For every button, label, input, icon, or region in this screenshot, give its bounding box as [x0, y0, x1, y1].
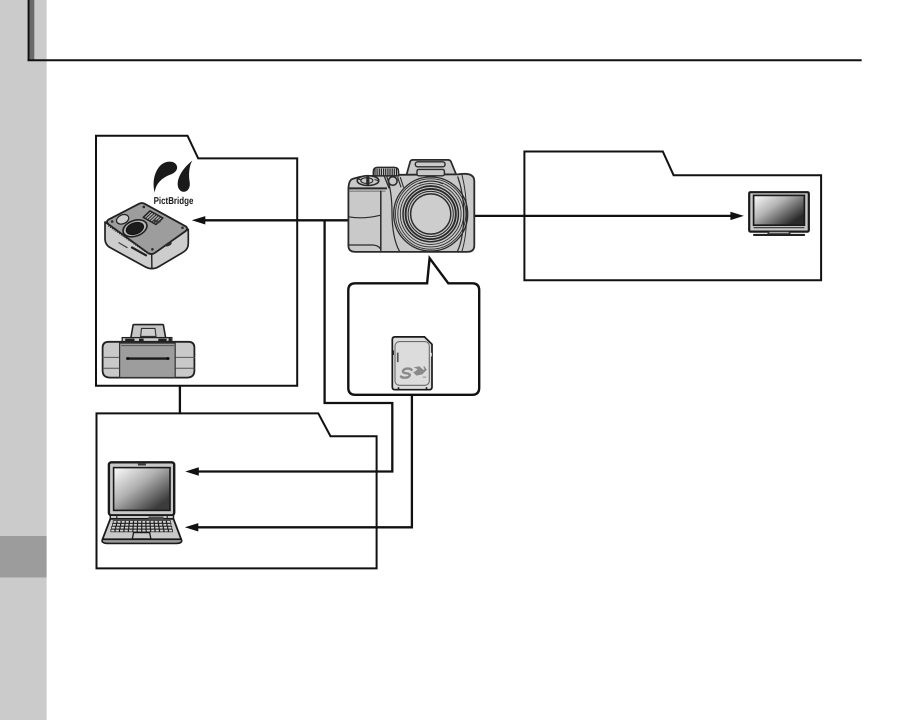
lens shroud right edge [457, 176, 464, 251]
computer group box [97, 413, 377, 568]
wire camera to TV [470, 215, 732, 217]
top plate diagonal [384, 176, 389, 188]
inkjet printer [102, 325, 195, 378]
TV [749, 192, 809, 236]
left page margin strip [0, 0, 47, 720]
wire camera to computer (USB) [198, 220, 392, 471]
wire camera to printer [203, 219, 350, 221]
SD card [392, 337, 433, 390]
mode dial [373, 167, 398, 176]
photo printer [105, 203, 188, 269]
shutter lever [357, 176, 379, 186]
flash hump window [415, 162, 445, 167]
arrowhead at computer (USB) [185, 467, 199, 475]
PictBridge logo mark [154, 161, 193, 193]
TV group box [524, 152, 821, 281]
arrowhead at TV [730, 212, 744, 220]
diagonals right of AF lamp [398, 177, 404, 187]
SD card callout bubble [348, 258, 479, 395]
lens shroud left edge [387, 176, 400, 251]
arrowhead at printer [192, 216, 206, 224]
flash front window [417, 169, 444, 175]
lens rings [394, 177, 468, 251]
right panel line [462, 174, 467, 252]
grip lines [380, 191, 382, 251]
AF illuminator [389, 177, 398, 186]
camera body [348, 174, 474, 252]
printer group box [96, 136, 297, 386]
camera flash hump [406, 160, 457, 176]
header accent bar [30, 0, 35, 60]
svg-text:PictBridge: PictBridge [154, 196, 194, 207]
chapter tab marker [0, 536, 47, 578]
arrowhead at computer (card) [185, 523, 199, 531]
header rule [28, 0, 862, 60]
connector printer box to computer box [179, 386, 181, 414]
wire SD card to computer (card reader) [198, 395, 412, 528]
laptop [102, 462, 182, 543]
top plate band [349, 187, 388, 189]
